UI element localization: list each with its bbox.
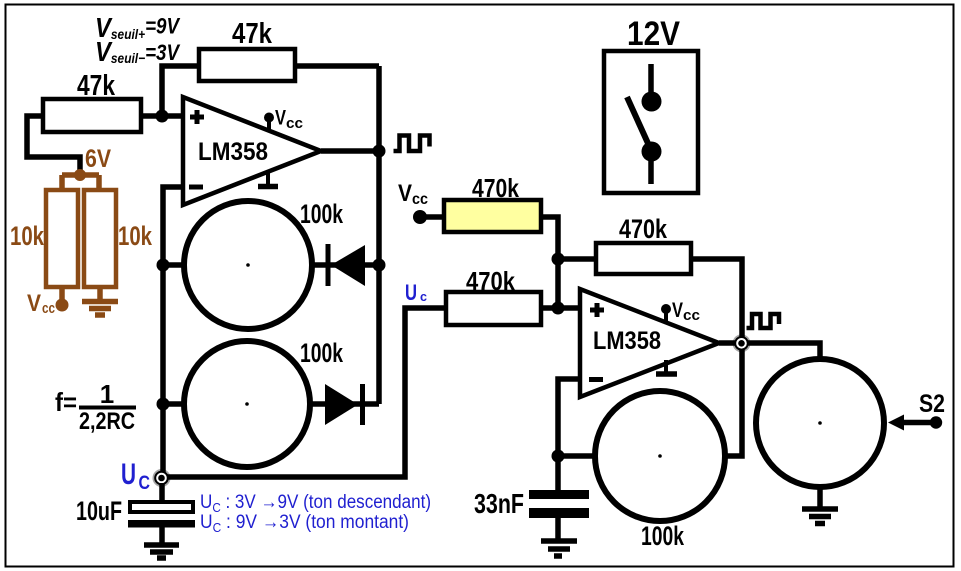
svg-text:V: V — [27, 290, 41, 317]
U2 plus sign — [590, 303, 604, 317]
potentiometer P2 100k — [163, 401, 184, 407]
U1 plus sign — [190, 110, 204, 124]
wire: + node up to top feedback — [162, 66, 199, 116]
wire R2 right to + input — [141, 113, 183, 119]
svg-text:33nF: 33nF — [474, 488, 524, 519]
svg-text:C: C — [139, 472, 151, 494]
svg-text:U: U — [121, 458, 136, 491]
node ring output U2 — [733, 334, 751, 352]
capacitor C2 33nF — [555, 456, 561, 491]
svg-text:LM358: LM358 — [593, 327, 661, 355]
junction node diode1-output column — [373, 259, 386, 272]
threshold annotation Vseuil — [95, 12, 181, 67]
resistor R3 470k (yellow) — [444, 200, 541, 232]
resistor 10k left (brown) — [46, 190, 78, 287]
resistor 10k right (brown) — [84, 190, 116, 287]
svg-text:10uF: 10uF — [76, 496, 122, 526]
wire output to P4 — [742, 343, 820, 360]
U2 minus sign — [589, 377, 603, 382]
U1 ground pin — [266, 170, 270, 184]
square wave symbol 2 — [747, 314, 780, 328]
svg-text:c: c — [420, 289, 427, 304]
potentiometer P4 (output) — [756, 359, 884, 487]
svg-text:100k: 100k — [300, 338, 343, 368]
svg-text:47k: 47k — [77, 70, 116, 102]
switch contact top — [648, 64, 654, 94]
ground right (brown) — [82, 287, 118, 315]
resistor R4 470k (input) — [446, 292, 541, 325]
switch lever — [627, 97, 651, 150]
formula f=1/2,2RC — [55, 379, 136, 435]
wire R3 right down — [541, 217, 558, 308]
svg-text:6V: 6V — [85, 145, 111, 173]
capacitor C1 10uF — [159, 483, 165, 501]
svg-text:V: V — [275, 107, 286, 130]
svg-text:cc: cc — [412, 191, 428, 208]
wire R1 right to output column — [295, 63, 379, 69]
svg-text:10k: 10k — [10, 221, 45, 251]
U1 Vcc pin — [267, 118, 271, 131]
svg-text:12V: 12V — [627, 15, 680, 53]
U2 ground pin — [664, 360, 668, 372]
junction node C2 — [552, 450, 565, 463]
potentiometer P1 100k — [163, 262, 185, 268]
svg-text:f=: f= — [55, 387, 77, 417]
diode D2 (points right) — [310, 401, 379, 407]
U2 Vcc pin — [664, 309, 668, 322]
svg-text:10k: 10k — [118, 221, 153, 251]
U1 minus sign — [189, 185, 203, 190]
svg-text:470k: 470k — [472, 173, 519, 203]
op-amp U2 LM358 — [580, 289, 719, 397]
svg-text:U: U — [405, 280, 417, 305]
ground P4 — [802, 487, 838, 524]
diode D1 (points left) — [311, 262, 379, 268]
junction node P1 left — [157, 259, 170, 272]
Vcc stub left (brown) — [59, 287, 65, 301]
resistor R2 47k (left input) — [43, 99, 141, 132]
svg-text:cc: cc — [683, 307, 700, 324]
resistor R5 470k (feedback) — [558, 256, 596, 262]
wire Uc to comparator — [167, 308, 446, 477]
wire - input vertical bus — [163, 187, 183, 477]
wire output vertical column — [376, 66, 382, 404]
svg-text:1: 1 — [100, 379, 114, 409]
wire R4 right — [541, 305, 580, 311]
wire R2 left down to divider — [27, 116, 80, 172]
switch box — [604, 51, 698, 193]
square wave symbol 1 — [394, 136, 430, 152]
svg-text:LM358: LM358 — [198, 138, 268, 166]
svg-text:V: V — [672, 299, 683, 322]
ground C1 — [144, 527, 179, 558]
blue annotation lines — [200, 492, 431, 535]
switch contact bottom — [642, 142, 662, 162]
junction node P2 left — [157, 398, 170, 411]
junction node R3/R5 — [552, 253, 565, 266]
svg-text:2,2RC: 2,2RC — [79, 408, 135, 435]
potentiometer P3 100k — [558, 453, 596, 459]
svg-text:100k: 100k — [300, 199, 343, 229]
junction node + input — [156, 110, 169, 123]
divider top junction (brown) — [62, 172, 99, 190]
op-amp U1 LM358 — [183, 97, 321, 205]
svg-text:UC : 9V →3V (ton montant): UC : 9V →3V (ton montant) — [200, 512, 409, 535]
svg-text:470k: 470k — [619, 214, 668, 244]
wire P3 right up to output — [724, 343, 742, 456]
wire U2 - input — [558, 379, 580, 456]
svg-text:cc: cc — [286, 115, 303, 132]
svg-text:S2: S2 — [919, 390, 945, 418]
wire U1 output — [321, 148, 379, 154]
wire U2 output — [719, 340, 742, 346]
svg-text:V: V — [398, 180, 412, 207]
junction node output U1 — [373, 145, 386, 158]
svg-text:470k: 470k — [466, 266, 515, 296]
svg-text:cc: cc — [42, 300, 55, 317]
junction node R4/+in — [552, 302, 565, 315]
node Uc (ring) — [153, 469, 171, 487]
resistor R1 47k (top feedback) — [199, 49, 295, 81]
svg-text:47k: 47k — [232, 18, 273, 50]
ground C2 — [541, 518, 577, 556]
svg-text:100k: 100k — [641, 521, 684, 551]
